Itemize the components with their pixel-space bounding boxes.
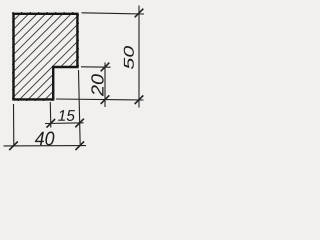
dimension line 15 xyxy=(45,122,84,125)
extension line below right edge xyxy=(79,70,81,146)
dimension line 20 xyxy=(104,63,106,108)
dimension text 50 xyxy=(124,46,134,69)
dimension line 40 xyxy=(4,145,87,147)
tick right of 15 xyxy=(75,119,84,128)
extension line below notch left xyxy=(49,102,52,128)
tick right of 40 xyxy=(76,141,85,150)
tick left of 15 xyxy=(47,119,56,128)
dimension text 20 xyxy=(91,74,103,96)
tick left of 40 xyxy=(9,142,18,151)
tick bottom of 50 xyxy=(135,95,144,104)
dimension line 50 xyxy=(138,6,140,108)
extension line below left edge xyxy=(13,104,15,146)
dimension text 40 xyxy=(35,132,55,146)
extension line from bottom edge xyxy=(56,99,144,100)
dimension text 15 xyxy=(58,110,75,121)
section outline (L-shaped profile) xyxy=(14,14,78,100)
extension line from notch top xyxy=(81,66,111,68)
tick top of 20 xyxy=(101,63,110,72)
tick bottom of 20 xyxy=(101,95,110,104)
tick top of 50 xyxy=(135,9,144,18)
extension line from top edge xyxy=(82,13,145,14)
hatching of cross-section xyxy=(0,0,170,110)
